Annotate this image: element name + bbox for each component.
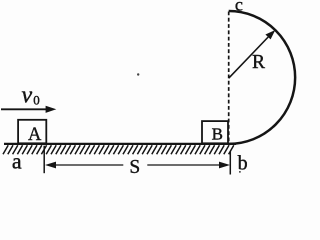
dashed line b to c xyxy=(228,12,230,144)
semicircular arc xyxy=(229,11,295,144)
block B xyxy=(202,121,228,143)
ground hatching xyxy=(3,145,234,154)
speck below b xyxy=(239,171,241,173)
speck artifact xyxy=(137,73,139,75)
svg-text:R: R xyxy=(252,52,265,73)
S dimension line right with arrow xyxy=(147,162,230,169)
svg-text:0: 0 xyxy=(33,92,40,107)
ground line xyxy=(4,143,236,145)
label v0 xyxy=(22,82,40,108)
tick below b xyxy=(229,151,231,175)
svg-text:A: A xyxy=(28,125,42,145)
svg-text:v: v xyxy=(22,82,33,108)
tick below A xyxy=(43,146,45,174)
svg-text:a: a xyxy=(12,148,22,173)
radius arrow R xyxy=(229,30,276,78)
block A xyxy=(18,120,46,144)
svg-text:b: b xyxy=(238,152,248,174)
S dimension line left with arrow xyxy=(45,162,123,169)
svg-text:S: S xyxy=(129,157,140,177)
arrow v0 xyxy=(1,106,56,113)
svg-text:B: B xyxy=(212,125,223,144)
